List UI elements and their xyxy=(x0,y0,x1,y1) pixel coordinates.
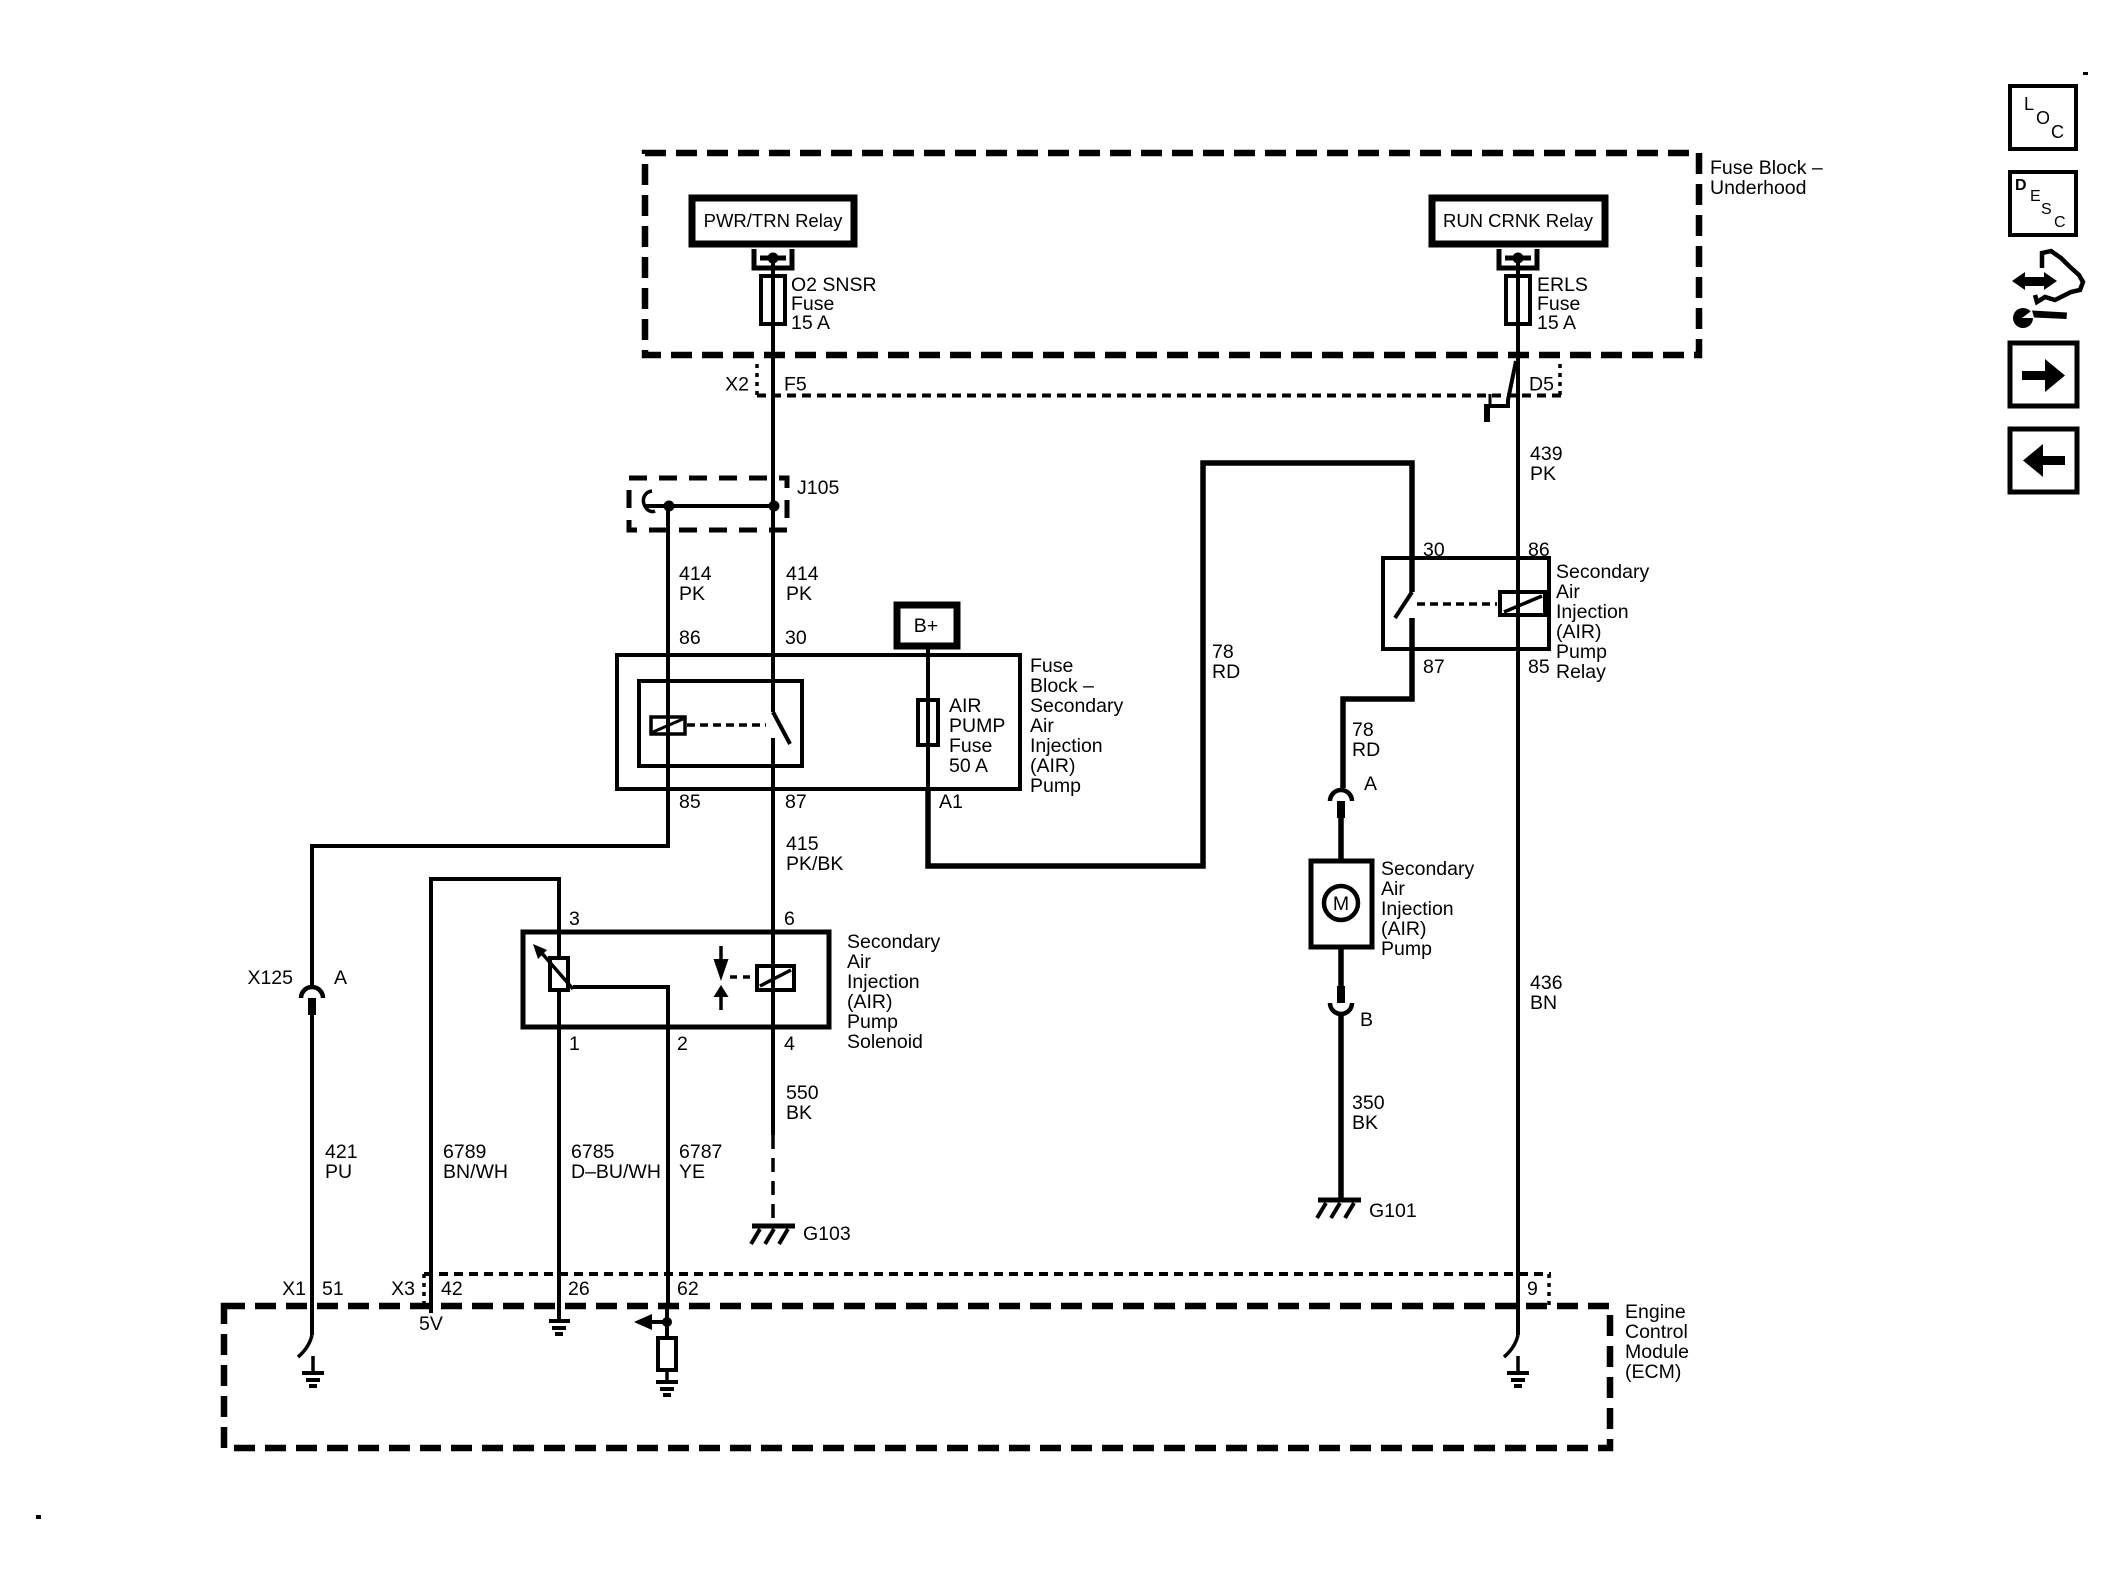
svg-text:BK: BK xyxy=(1352,1112,1378,1134)
connector X3 dotted boundary xyxy=(424,1274,1551,1306)
ECM pin 9 internal switch xyxy=(1504,1306,1518,1357)
position sensor element xyxy=(533,944,573,990)
ground G101 (chassis) xyxy=(1317,1200,1417,1222)
svg-text:51: 51 xyxy=(322,1278,344,1300)
ECM pin 51 internal ground xyxy=(302,1356,324,1386)
svg-text:Fuse Block –: Fuse Block – xyxy=(1710,157,1823,179)
fuse O2 SNSR 15A xyxy=(761,274,877,334)
svg-text:Relay: Relay xyxy=(1556,661,1606,683)
svg-text:PWR/TRN Relay: PWR/TRN Relay xyxy=(704,210,844,231)
connector bracket below PWR/TRN relay xyxy=(754,249,792,268)
svg-text:Air: Air xyxy=(1556,581,1580,603)
pin label 9 xyxy=(1527,1278,1538,1300)
pin label 51 xyxy=(322,1278,344,1300)
wire label 6789 BN/WH xyxy=(443,1141,508,1183)
svg-text:(AIR): (AIR) xyxy=(1030,755,1076,777)
svg-text:85: 85 xyxy=(679,791,701,813)
connector B label xyxy=(1360,1009,1373,1031)
AIR pump relay dashed link xyxy=(1417,602,1497,606)
svg-text:Control: Control xyxy=(1625,1321,1688,1343)
svg-text:A: A xyxy=(334,967,347,989)
svg-text:30: 30 xyxy=(785,627,807,649)
pin label 85 xyxy=(679,791,701,813)
ECM pin 9 internal ground xyxy=(1507,1356,1529,1386)
svg-text:439: 439 xyxy=(1530,443,1563,465)
svg-text:421: 421 xyxy=(325,1141,358,1163)
svg-text:86: 86 xyxy=(1528,539,1550,561)
svg-text:550: 550 xyxy=(786,1082,819,1104)
B+ power tag xyxy=(897,605,957,646)
dotted connector boundary line X2..D5 xyxy=(757,394,1564,398)
svg-text:78: 78 xyxy=(1352,719,1374,741)
wire label 78 RD (feed) xyxy=(1212,641,1240,683)
ECM pin 26 internal ground xyxy=(549,1306,570,1334)
ECM pin 62 signal node with arrow xyxy=(634,1306,672,1338)
wire 78 RD from relay pin 87 to pump connector A xyxy=(1343,649,1412,788)
wire label 421 PU xyxy=(325,1141,358,1183)
svg-text:X1: X1 xyxy=(282,1278,306,1300)
stray mark top right xyxy=(2083,72,2088,75)
fuse block underhood (dashed box) xyxy=(645,153,1699,355)
svg-text:87: 87 xyxy=(785,791,807,813)
relay secondary AIR pump (box) xyxy=(1383,558,1549,649)
svg-text:Pump: Pump xyxy=(847,1011,898,1033)
splice end hook xyxy=(643,491,655,512)
svg-text:(ECM): (ECM) xyxy=(1625,1361,1681,1383)
svg-text:C: C xyxy=(2054,214,2066,231)
svg-text:2: 2 xyxy=(677,1033,688,1055)
svg-text:Injection: Injection xyxy=(847,971,920,993)
icon arrow right box xyxy=(2010,343,2077,406)
pin label 30 xyxy=(1423,539,1445,561)
pin label 42 xyxy=(441,1278,463,1300)
pin label 4 xyxy=(784,1033,795,1055)
wire 350 BK to G101 xyxy=(1338,1014,1344,1200)
svg-text:M: M xyxy=(1333,893,1349,915)
svg-text:RD: RD xyxy=(1352,739,1380,761)
svg-text:RUN CRNK Relay: RUN CRNK Relay xyxy=(1443,210,1594,231)
svg-text:Pump: Pump xyxy=(1556,641,1607,663)
svg-text:1: 1 xyxy=(569,1033,580,1055)
svg-text:436: 436 xyxy=(1530,972,1563,994)
svg-text:350: 350 xyxy=(1352,1092,1385,1114)
connector bracket below RUN CRNK relay xyxy=(1499,249,1537,268)
ECM pin 62 internal ground xyxy=(656,1370,678,1395)
svg-text:B: B xyxy=(1360,1009,1373,1031)
svg-text:62: 62 xyxy=(677,1278,699,1300)
svg-text:Engine: Engine xyxy=(1625,1301,1686,1323)
svg-text:50 A: 50 A xyxy=(949,755,988,777)
wire label 436 BN xyxy=(1530,972,1563,1014)
svg-text:6785: 6785 xyxy=(571,1141,615,1163)
pin label 3 xyxy=(569,908,580,930)
wire 421 PU to ECM pin 51 xyxy=(310,1015,314,1306)
svg-text:PK/BK: PK/BK xyxy=(786,853,843,875)
svg-text:Pump: Pump xyxy=(1030,775,1081,797)
power feed wire A1 to AIR pump relay pin 30 xyxy=(928,463,1412,866)
svg-text:6: 6 xyxy=(784,908,795,930)
wire 550 BK dashed part xyxy=(771,1135,775,1223)
svg-text:Air: Air xyxy=(1381,878,1405,900)
pin label 6 xyxy=(784,908,795,930)
wire connector A to pump motor xyxy=(1338,818,1344,861)
wire label 6787 YE xyxy=(679,1141,722,1183)
wire label 439 PK xyxy=(1530,443,1563,485)
pin label 87 xyxy=(1423,656,1445,678)
pin label A1 xyxy=(939,791,963,813)
svg-text:(AIR): (AIR) xyxy=(1381,918,1427,940)
wire label 414 PK (right) xyxy=(786,563,819,605)
svg-text:Secondary: Secondary xyxy=(1556,561,1649,583)
splice jumper wire with junction dots xyxy=(646,501,780,512)
svg-text:Pump: Pump xyxy=(1381,938,1432,960)
svg-text:X125: X125 xyxy=(247,967,293,989)
connector row D5 xyxy=(1529,364,1560,397)
svg-text:Fuse: Fuse xyxy=(949,735,992,757)
AIR pump relay switch blade xyxy=(1395,592,1412,618)
svg-text:O: O xyxy=(2036,108,2050,128)
svg-text:(AIR): (AIR) xyxy=(1556,621,1602,643)
relay PWR/TRN (bold name box) xyxy=(692,198,854,244)
svg-text:Underhood: Underhood xyxy=(1710,177,1807,199)
wire label 6785 D-BU/WH xyxy=(571,1141,661,1183)
connector B symbol xyxy=(1330,986,1352,1014)
svg-text:PK: PK xyxy=(786,583,812,605)
sensor wiper wire to pin 2 and down to ECM pin 62 xyxy=(573,987,668,1306)
fuse AIR PUMP 50A xyxy=(918,695,1005,777)
label secondary AIR pump xyxy=(1381,858,1474,960)
ECM pin 51 internal switch xyxy=(298,1306,312,1357)
svg-text:Injection: Injection xyxy=(1381,898,1454,920)
svg-text:A: A xyxy=(1364,773,1377,795)
svg-text:85: 85 xyxy=(1528,656,1550,678)
label fuse block secondary AIR pump xyxy=(1030,655,1123,797)
label Fuse Block - Underhood xyxy=(1710,157,1823,199)
svg-text:J105: J105 xyxy=(797,477,839,499)
svg-text:Module: Module xyxy=(1625,1341,1689,1363)
PWR/TRN relay element (inner box) xyxy=(639,681,802,766)
wire 439 PK from ERLS fuse down to AIR pump relay and on as 436 BN to ECM pin 9 xyxy=(1516,258,1520,1306)
connector A symbol xyxy=(1330,790,1352,818)
icon LOC box xyxy=(2010,86,2076,149)
svg-text:YE: YE xyxy=(679,1161,705,1183)
svg-text:Air: Air xyxy=(847,951,871,973)
relay coil (left) xyxy=(651,717,685,734)
svg-text:Solenoid: Solenoid xyxy=(847,1031,923,1053)
svg-text:RD: RD xyxy=(1212,661,1240,683)
connector A label xyxy=(1364,773,1377,795)
wire label 350 BK xyxy=(1352,1092,1385,1134)
engine control module ECM (dashed box) xyxy=(224,1306,1610,1448)
svg-text:BK: BK xyxy=(786,1102,812,1124)
svg-text:A1: A1 xyxy=(939,791,963,813)
pin label 62 xyxy=(677,1278,699,1300)
label secondary AIR pump solenoid xyxy=(847,931,940,1053)
wire label 550 BK xyxy=(786,1082,819,1124)
wire label 414 PK (left) xyxy=(679,563,712,605)
svg-text:5V: 5V xyxy=(419,1313,443,1335)
svg-text:6789: 6789 xyxy=(443,1141,486,1163)
wire through coil to pin 4 xyxy=(771,932,775,1027)
valve symbol (two triangles) xyxy=(714,946,729,1010)
wire 550 BK solid part xyxy=(771,1027,775,1135)
svg-text:B+: B+ xyxy=(914,615,938,637)
svg-text:78: 78 xyxy=(1212,641,1234,663)
svg-text:S: S xyxy=(2041,201,2052,218)
pin label 30 xyxy=(785,627,807,649)
pin label 26 xyxy=(568,1278,590,1300)
icon DESC box xyxy=(2010,172,2076,235)
svg-text:Secondary: Secondary xyxy=(847,931,940,953)
svg-text:PK: PK xyxy=(1530,463,1556,485)
svg-text:F5: F5 xyxy=(784,374,807,396)
svg-text:PU: PU xyxy=(325,1161,352,1183)
svg-text:G101: G101 xyxy=(1369,1200,1417,1222)
svg-text:6787: 6787 xyxy=(679,1141,722,1163)
fuse block secondary AIR pump (outer box) xyxy=(617,655,1020,789)
svg-text:PUMP: PUMP xyxy=(949,715,1005,737)
valve-coil dashed link xyxy=(730,975,753,979)
wire pin 3 loop to ECM pin 42 xyxy=(431,879,559,1306)
svg-text:X2: X2 xyxy=(725,374,749,396)
pin label 1 xyxy=(569,1033,580,1055)
pin label 87 xyxy=(785,791,807,813)
wire from PWR/TRN relay down through O2 SNSR fuse to J105 and relay switch xyxy=(771,258,775,712)
svg-text:Injection: Injection xyxy=(1556,601,1629,623)
svg-text:4: 4 xyxy=(784,1033,795,1055)
svg-text:86: 86 xyxy=(679,627,701,649)
svg-text:X3: X3 xyxy=(391,1278,415,1300)
svg-text:42: 42 xyxy=(441,1278,463,1300)
pin label X1 xyxy=(282,1278,306,1300)
pin label 86 xyxy=(1528,539,1550,561)
svg-text:26: 26 xyxy=(568,1278,590,1300)
svg-text:PK: PK xyxy=(679,583,705,605)
svg-text:(AIR): (AIR) xyxy=(847,991,893,1013)
svg-text:Secondary: Secondary xyxy=(1381,858,1474,880)
svg-text:E: E xyxy=(2030,188,2041,205)
svg-text:9: 9 xyxy=(1527,1278,1538,1300)
svg-text:414: 414 xyxy=(679,563,712,585)
AIR pump relay lower contact stub xyxy=(1409,618,1415,649)
connector X125 symbol xyxy=(301,987,323,1015)
relay RUN CRNK (bold name box) xyxy=(1432,198,1605,244)
svg-text:Fuse: Fuse xyxy=(1030,655,1073,677)
wire label 78 RD xyxy=(1352,719,1380,761)
pin label X3 xyxy=(391,1278,415,1300)
svg-text:Secondary: Secondary xyxy=(1030,695,1123,717)
relay switch blade xyxy=(773,712,790,744)
wire from relay pin 87 down to solenoid pin 6 xyxy=(771,738,775,932)
connector X125 labels xyxy=(247,967,347,989)
svg-text:Block –: Block – xyxy=(1030,675,1094,697)
svg-text:G103: G103 xyxy=(803,1223,851,1245)
svg-text:15 A: 15 A xyxy=(1537,312,1576,334)
D5 wire pass-through squiggle xyxy=(1487,361,1516,422)
splice J105 (dashed box) xyxy=(629,477,839,530)
svg-text:BN: BN xyxy=(1530,992,1557,1014)
svg-text:AIR: AIR xyxy=(949,695,982,717)
svg-text:D5: D5 xyxy=(1529,374,1554,396)
svg-text:30: 30 xyxy=(1423,539,1445,561)
pin label 86 xyxy=(679,627,701,649)
svg-text:BN/WH: BN/WH xyxy=(443,1161,508,1183)
stray mark bottom left xyxy=(36,1515,41,1519)
icon repair (double arrow, outline, wrench) xyxy=(2012,251,2083,328)
svg-text:C: C xyxy=(2051,122,2064,142)
relay coil-switch dashed link xyxy=(687,723,766,727)
svg-text:D: D xyxy=(2015,177,2027,194)
secondary AIR pump motor (box) xyxy=(1311,861,1372,947)
wire label 415 PK/BK xyxy=(786,833,843,875)
secondary AIR pump solenoid (box) xyxy=(523,932,829,1027)
wire motor to connector B xyxy=(1338,947,1344,986)
pin label 2 xyxy=(677,1033,688,1055)
solenoid coil xyxy=(757,966,794,990)
connector row X2 / F5 xyxy=(725,364,807,397)
wire 414 PK left branch: J105 to relay pin 86/85 then to X125 xyxy=(312,506,668,988)
icon arrow left box xyxy=(2010,429,2077,492)
svg-text:414: 414 xyxy=(786,563,819,585)
label Engine Control Module (ECM) xyxy=(1625,1301,1689,1383)
svg-text:415: 415 xyxy=(786,833,819,855)
wire pin 1 to ECM pin 26 xyxy=(557,990,561,1306)
svg-text:L: L xyxy=(2024,94,2034,114)
ECM internal resistor xyxy=(658,1338,676,1370)
motor M circle xyxy=(1324,886,1358,920)
ECM pin 42 5V reference xyxy=(419,1306,443,1335)
svg-text:87: 87 xyxy=(1423,656,1445,678)
fuse ERLS 15A xyxy=(1506,274,1588,334)
svg-text:15 A: 15 A xyxy=(791,312,830,334)
label secondary AIR pump relay xyxy=(1556,561,1649,683)
ground G103 (chassis) xyxy=(751,1223,851,1245)
svg-text:Injection: Injection xyxy=(1030,735,1103,757)
svg-text:D–BU/WH: D–BU/WH xyxy=(571,1161,661,1183)
AIR pump relay coil xyxy=(1500,592,1545,615)
svg-text:3: 3 xyxy=(569,908,580,930)
pin label 85 xyxy=(1528,656,1550,678)
svg-text:Air: Air xyxy=(1030,715,1054,737)
wire B+ through AIR PUMP fuse to pin A1 xyxy=(926,646,930,789)
